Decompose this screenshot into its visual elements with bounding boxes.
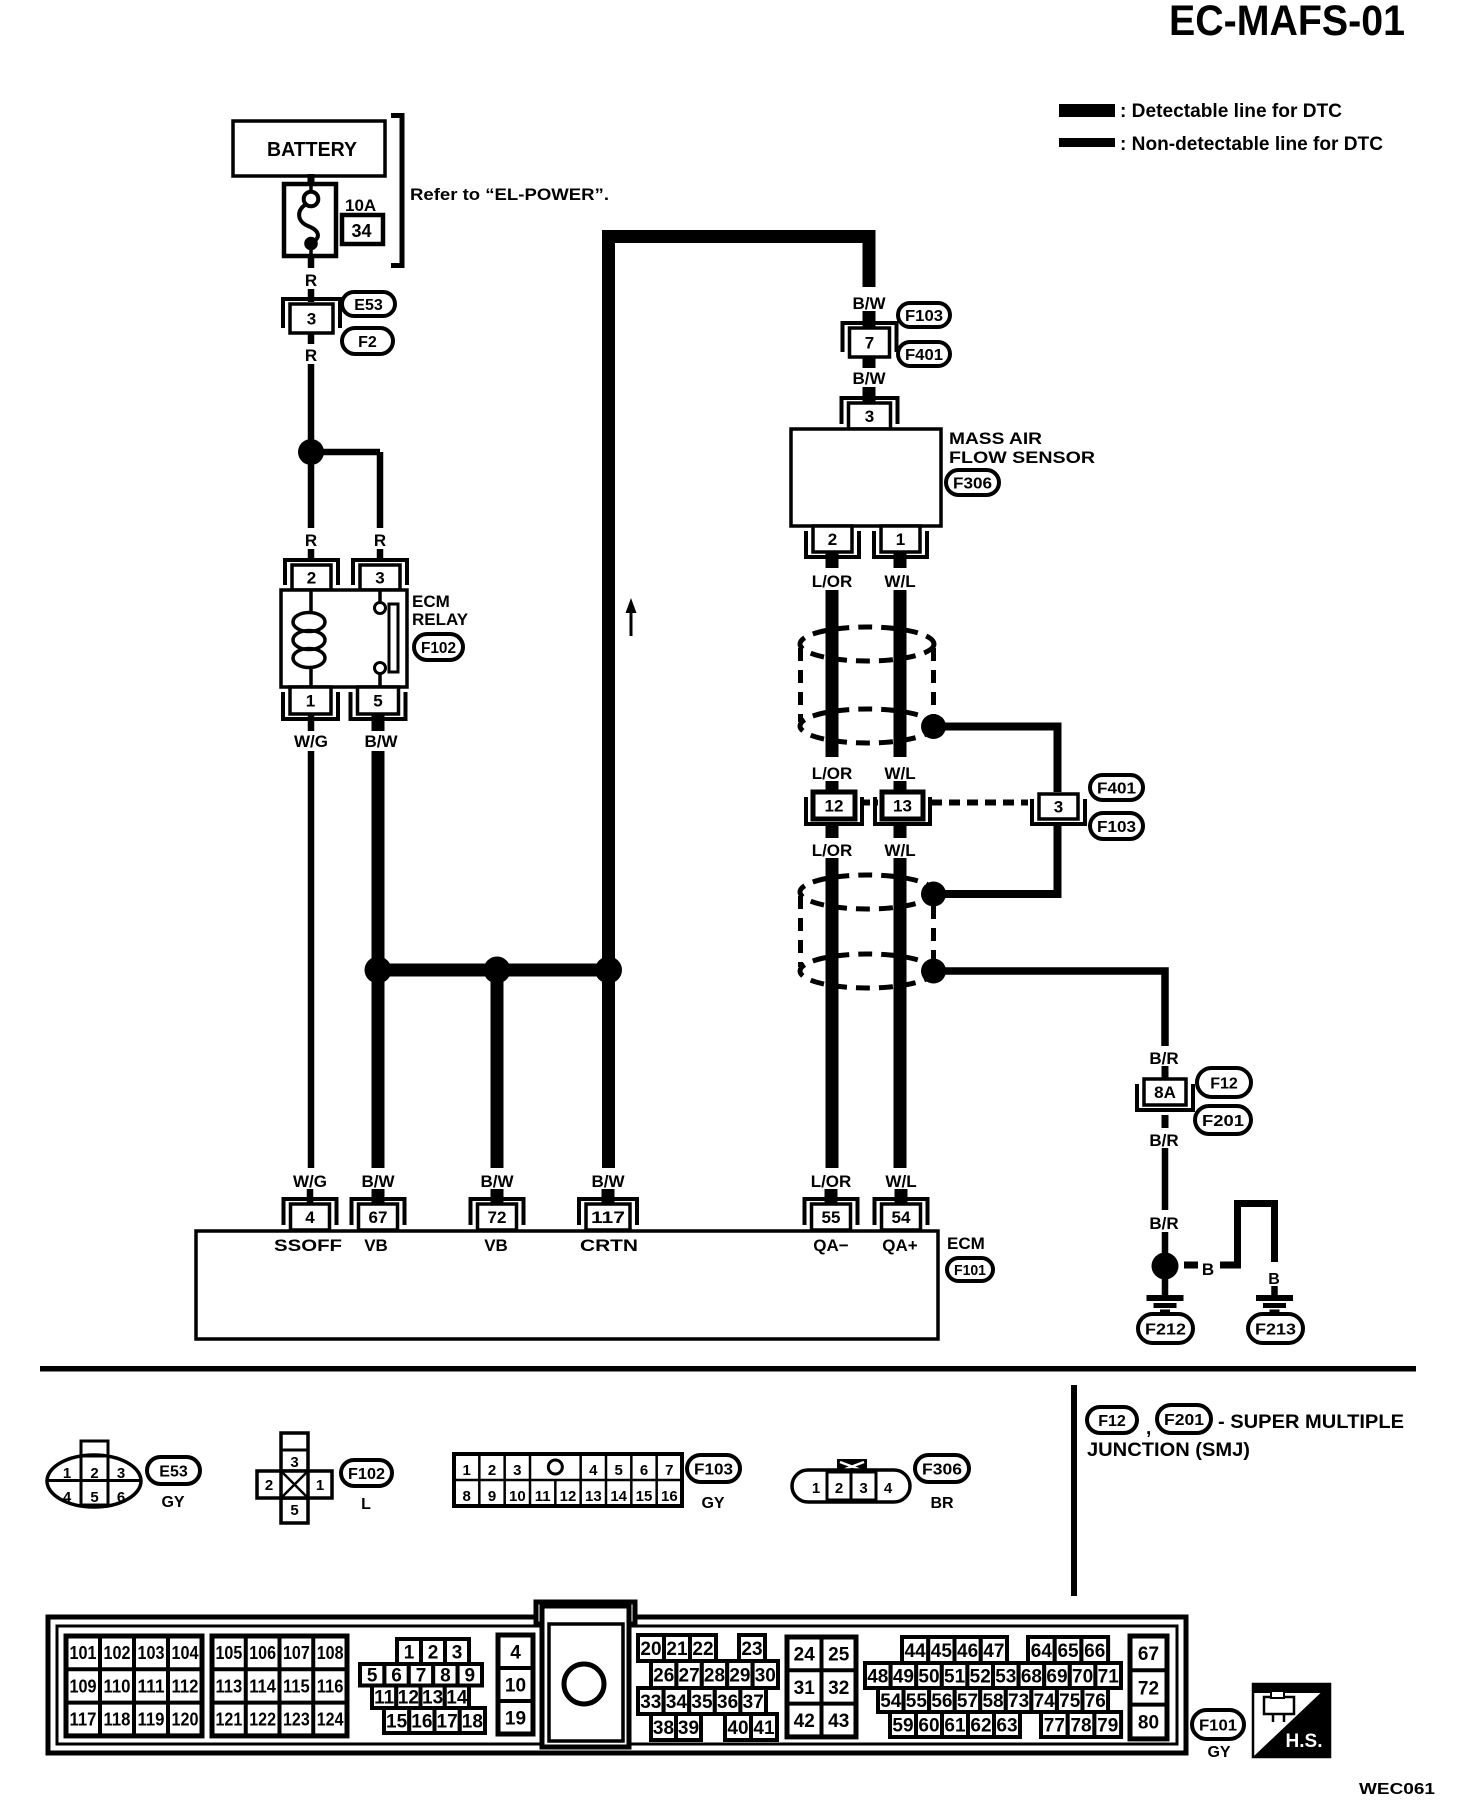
svg-text:117: 117 (591, 1208, 625, 1227)
svg-text:W/G: W/G (294, 732, 328, 751)
svg-text:VB: VB (364, 1236, 388, 1255)
svg-text:57: 57 (957, 1691, 978, 1712)
svg-text:F401: F401 (905, 347, 943, 364)
svg-text:76: 76 (1085, 1691, 1106, 1712)
svg-text:46: 46 (957, 1641, 978, 1662)
svg-text:72: 72 (1138, 1678, 1159, 1699)
svg-text:L/OR: L/OR (812, 572, 853, 591)
svg-text:53: 53 (995, 1666, 1016, 1687)
svg-text:7: 7 (665, 1462, 673, 1479)
svg-text:F12: F12 (1098, 1413, 1126, 1430)
svg-text:65: 65 (1057, 1641, 1079, 1662)
svg-text:F103: F103 (905, 308, 943, 325)
svg-text:CRTN: CRTN (580, 1236, 638, 1255)
svg-text:112: 112 (172, 1676, 199, 1696)
svg-text:74: 74 (1034, 1691, 1056, 1712)
svg-text:: Non-detectable line for DTC: : Non-detectable line for DTC (1120, 134, 1383, 155)
svg-text:F212: F212 (1145, 1321, 1186, 1338)
svg-text:24: 24 (794, 1644, 816, 1665)
svg-text:47: 47 (983, 1641, 1004, 1662)
svg-text:16: 16 (661, 1488, 678, 1505)
svg-text:F2: F2 (358, 334, 377, 351)
svg-text:27: 27 (679, 1665, 700, 1686)
svg-text:51: 51 (944, 1666, 966, 1687)
svg-text:44: 44 (905, 1641, 927, 1662)
svg-text:36: 36 (717, 1692, 738, 1713)
svg-text:2: 2 (835, 1480, 843, 1497)
svg-text:4: 4 (305, 1208, 315, 1227)
svg-text:71: 71 (1098, 1666, 1120, 1687)
svg-text:115: 115 (283, 1676, 310, 1696)
svg-text:40: 40 (727, 1718, 748, 1739)
svg-text:68: 68 (1021, 1666, 1042, 1687)
svg-text:BATTERY: BATTERY (267, 139, 358, 161)
svg-text:F201: F201 (1164, 1412, 1204, 1429)
svg-text:E53: E53 (354, 297, 383, 314)
svg-text:37: 37 (743, 1692, 764, 1713)
svg-text:RELAY: RELAY (412, 610, 469, 629)
svg-text:106: 106 (249, 1643, 276, 1663)
svg-text:9: 9 (488, 1488, 496, 1505)
svg-text:L: L (361, 1496, 371, 1513)
svg-text:14: 14 (610, 1488, 627, 1505)
svg-text:64: 64 (1031, 1641, 1053, 1662)
svg-text:E53: E53 (159, 1463, 188, 1480)
svg-text:111: 111 (138, 1676, 165, 1696)
svg-text:43: 43 (828, 1711, 849, 1732)
svg-text:EC-MAFS-01: EC-MAFS-01 (1169, 0, 1405, 45)
svg-text:L/OR: L/OR (811, 1172, 852, 1191)
svg-text:67: 67 (1138, 1644, 1159, 1665)
svg-text:5: 5 (614, 1462, 622, 1479)
svg-text:1: 1 (896, 530, 905, 549)
svg-text:60: 60 (918, 1715, 939, 1736)
svg-text:F101: F101 (954, 1262, 986, 1279)
svg-text:118: 118 (104, 1710, 131, 1730)
svg-text:F12: F12 (1210, 1075, 1238, 1092)
svg-text:108: 108 (317, 1643, 344, 1663)
svg-text:34: 34 (666, 1692, 688, 1713)
svg-text:42: 42 (794, 1711, 815, 1732)
svg-text:VB: VB (484, 1236, 508, 1255)
svg-text:12: 12 (825, 797, 844, 816)
svg-text:12: 12 (398, 1688, 419, 1709)
svg-text:FLOW SENSOR: FLOW SENSOR (949, 448, 1095, 467)
svg-text:5: 5 (290, 1502, 298, 1519)
svg-text:5: 5 (367, 1666, 378, 1687)
svg-text:F213: F213 (1255, 1321, 1296, 1338)
svg-text:122: 122 (249, 1710, 276, 1730)
svg-text:19: 19 (505, 1708, 526, 1729)
svg-text:2: 2 (90, 1465, 98, 1482)
svg-text:GY: GY (1207, 1744, 1230, 1761)
svg-text:R: R (305, 531, 317, 550)
svg-text:Refer to “EL-POWER”.: Refer to “EL-POWER”. (410, 185, 609, 204)
svg-text:WEC061: WEC061 (1359, 1781, 1435, 1798)
svg-text:R: R (374, 531, 386, 550)
svg-text:23: 23 (741, 1639, 762, 1660)
svg-text:6: 6 (117, 1489, 125, 1506)
svg-text:B/W: B/W (852, 369, 886, 388)
svg-text:L/OR: L/OR (812, 841, 853, 860)
svg-text:45: 45 (931, 1641, 953, 1662)
svg-text:10: 10 (509, 1488, 526, 1505)
svg-text:F401: F401 (1097, 780, 1136, 797)
svg-text:13: 13 (893, 797, 912, 816)
svg-text:30: 30 (755, 1665, 776, 1686)
svg-text:66: 66 (1084, 1641, 1105, 1662)
svg-text:73: 73 (1008, 1691, 1029, 1712)
svg-text:6: 6 (391, 1666, 402, 1687)
svg-text:119: 119 (138, 1710, 165, 1730)
svg-text:113: 113 (216, 1676, 243, 1696)
svg-text:W/L: W/L (884, 841, 915, 860)
svg-text:38: 38 (653, 1718, 674, 1739)
svg-text:120: 120 (172, 1710, 199, 1730)
svg-text:4: 4 (589, 1462, 598, 1479)
svg-text:11: 11 (374, 1688, 395, 1709)
svg-text:10A: 10A (345, 196, 376, 215)
svg-text:110: 110 (104, 1676, 131, 1696)
svg-text:1: 1 (63, 1465, 71, 1482)
svg-text:4: 4 (510, 1642, 521, 1663)
svg-text:3: 3 (859, 1480, 867, 1497)
svg-text:124: 124 (317, 1710, 344, 1730)
svg-text:3: 3 (865, 407, 874, 426)
svg-text:F306: F306 (922, 1461, 962, 1478)
svg-text:F306: F306 (953, 475, 992, 492)
svg-text:59: 59 (892, 1715, 913, 1736)
svg-text:JUNCTION (SMJ): JUNCTION (SMJ) (1087, 1440, 1250, 1461)
svg-text:123: 123 (283, 1710, 310, 1730)
svg-text:52: 52 (970, 1666, 991, 1687)
svg-text:15: 15 (386, 1711, 408, 1732)
svg-text:L/OR: L/OR (812, 764, 853, 783)
svg-text:3: 3 (513, 1462, 521, 1479)
svg-text:BR: BR (930, 1495, 954, 1512)
svg-text:29: 29 (729, 1665, 750, 1686)
svg-text:49: 49 (893, 1666, 914, 1687)
svg-text:W/L: W/L (884, 572, 915, 591)
svg-text:109: 109 (70, 1676, 97, 1696)
svg-text:8: 8 (440, 1666, 451, 1687)
svg-text:5: 5 (90, 1489, 98, 1506)
svg-text:102: 102 (104, 1643, 131, 1663)
svg-text:77: 77 (1044, 1715, 1065, 1736)
svg-text:W/L: W/L (885, 1172, 916, 1191)
svg-text:B: B (1268, 1271, 1280, 1288)
svg-text:69: 69 (1046, 1666, 1067, 1687)
svg-text:F201: F201 (1202, 1113, 1244, 1130)
svg-text:80: 80 (1138, 1713, 1159, 1734)
svg-text:62: 62 (970, 1715, 991, 1736)
svg-text:50: 50 (918, 1666, 939, 1687)
svg-text:GY: GY (701, 1495, 724, 1512)
svg-text:34: 34 (351, 221, 371, 241)
svg-text:116: 116 (317, 1676, 344, 1696)
svg-text:ECM: ECM (947, 1234, 985, 1253)
svg-text:2: 2 (307, 569, 316, 588)
svg-text:28: 28 (704, 1665, 725, 1686)
svg-text:2: 2 (428, 1642, 439, 1663)
svg-text:20: 20 (640, 1639, 661, 1660)
svg-text:105: 105 (216, 1643, 243, 1663)
svg-text:104: 104 (172, 1643, 199, 1663)
svg-text:F102: F102 (348, 1466, 385, 1483)
svg-text:B/W: B/W (480, 1172, 514, 1191)
svg-text:W/G: W/G (293, 1172, 327, 1191)
svg-text:14: 14 (446, 1688, 468, 1709)
svg-text:7: 7 (416, 1666, 427, 1687)
svg-text:18: 18 (462, 1711, 483, 1732)
svg-text:B/R: B/R (1149, 1214, 1178, 1233)
svg-text:75: 75 (1059, 1691, 1081, 1712)
svg-text:70: 70 (1072, 1666, 1093, 1687)
svg-text:H.S.: H.S. (1286, 1731, 1323, 1752)
svg-text:,: , (1146, 1418, 1151, 1439)
svg-text:- SUPER MULTIPLE: - SUPER MULTIPLE (1218, 1412, 1404, 1433)
svg-text:1: 1 (316, 1477, 324, 1494)
svg-text:B/R: B/R (1149, 1131, 1178, 1150)
svg-text:63: 63 (996, 1715, 1017, 1736)
svg-text:31: 31 (794, 1678, 816, 1699)
svg-text:103: 103 (138, 1643, 165, 1663)
svg-text:B/W: B/W (852, 294, 886, 313)
svg-text:MASS AIR: MASS AIR (949, 429, 1042, 448)
svg-text:2: 2 (828, 530, 837, 549)
svg-text:56: 56 (931, 1691, 952, 1712)
svg-text:55: 55 (906, 1691, 928, 1712)
svg-text:13: 13 (585, 1488, 602, 1505)
svg-text:79: 79 (1097, 1715, 1118, 1736)
svg-text:55: 55 (822, 1208, 841, 1227)
svg-text:61: 61 (944, 1715, 966, 1736)
svg-text:B/W: B/W (591, 1172, 625, 1191)
svg-text:3: 3 (117, 1465, 125, 1482)
svg-text:B/R: B/R (1149, 1049, 1178, 1068)
svg-text:9: 9 (465, 1666, 476, 1687)
svg-text:F103: F103 (1097, 819, 1136, 836)
svg-text:5: 5 (373, 692, 382, 711)
svg-text:: Detectable line for DTC: : Detectable line for DTC (1120, 101, 1342, 122)
svg-text:1: 1 (306, 692, 315, 711)
svg-text:QA−: QA− (813, 1236, 849, 1255)
svg-text:QA+: QA+ (882, 1236, 918, 1255)
svg-text:21: 21 (666, 1639, 688, 1660)
svg-text:3: 3 (1054, 798, 1063, 817)
svg-text:SSOFF: SSOFF (274, 1236, 342, 1255)
svg-text:121: 121 (216, 1710, 243, 1730)
svg-text:3: 3 (290, 1454, 298, 1471)
svg-text:13: 13 (422, 1688, 443, 1709)
svg-text:72: 72 (488, 1208, 507, 1227)
svg-text:R: R (305, 271, 317, 290)
svg-text:2: 2 (488, 1462, 496, 1479)
svg-text:12: 12 (560, 1488, 577, 1505)
svg-text:F101: F101 (1199, 1717, 1237, 1734)
svg-text:1: 1 (462, 1462, 470, 1479)
svg-text:101: 101 (70, 1643, 97, 1663)
svg-text:39: 39 (678, 1718, 699, 1739)
svg-text:48: 48 (867, 1666, 888, 1687)
svg-text:2: 2 (265, 1477, 273, 1494)
svg-text:3: 3 (307, 310, 316, 329)
svg-text:F103: F103 (694, 1461, 733, 1478)
svg-text:26: 26 (653, 1665, 674, 1686)
svg-text:114: 114 (249, 1676, 276, 1696)
svg-text:22: 22 (692, 1639, 713, 1660)
svg-text:54: 54 (892, 1208, 911, 1227)
svg-text:B/W: B/W (361, 1172, 395, 1191)
svg-text:B: B (1202, 1260, 1214, 1279)
svg-text:11: 11 (535, 1488, 551, 1505)
svg-text:3: 3 (452, 1642, 463, 1663)
svg-text:R: R (305, 346, 317, 365)
svg-text:10: 10 (505, 1675, 526, 1696)
svg-text:1: 1 (812, 1480, 820, 1497)
svg-text:F102: F102 (421, 640, 456, 657)
svg-text:17: 17 (437, 1711, 458, 1732)
svg-text:33: 33 (640, 1692, 661, 1713)
svg-text:15: 15 (636, 1488, 653, 1505)
svg-text:117: 117 (70, 1710, 97, 1730)
svg-text:8A: 8A (1154, 1083, 1176, 1102)
svg-text:35: 35 (691, 1692, 713, 1713)
svg-text:3: 3 (375, 569, 384, 588)
svg-text:4: 4 (884, 1480, 893, 1497)
svg-text:7: 7 (865, 334, 874, 353)
svg-text:1: 1 (404, 1642, 415, 1663)
svg-text:4: 4 (63, 1489, 72, 1506)
svg-text:GY: GY (161, 1494, 184, 1511)
svg-text:54: 54 (880, 1691, 902, 1712)
svg-text:ECM: ECM (412, 592, 450, 611)
svg-text:6: 6 (640, 1462, 648, 1479)
svg-text:41: 41 (753, 1718, 775, 1739)
svg-text:8: 8 (462, 1488, 470, 1505)
svg-text:78: 78 (1070, 1715, 1091, 1736)
svg-text:32: 32 (828, 1678, 849, 1699)
svg-text:16: 16 (411, 1711, 432, 1732)
svg-text:107: 107 (283, 1643, 310, 1663)
svg-text:B/W: B/W (364, 732, 398, 751)
svg-text:25: 25 (828, 1644, 850, 1665)
svg-text:W/L: W/L (884, 764, 915, 783)
svg-text:67: 67 (369, 1208, 388, 1227)
svg-text:58: 58 (982, 1691, 1003, 1712)
